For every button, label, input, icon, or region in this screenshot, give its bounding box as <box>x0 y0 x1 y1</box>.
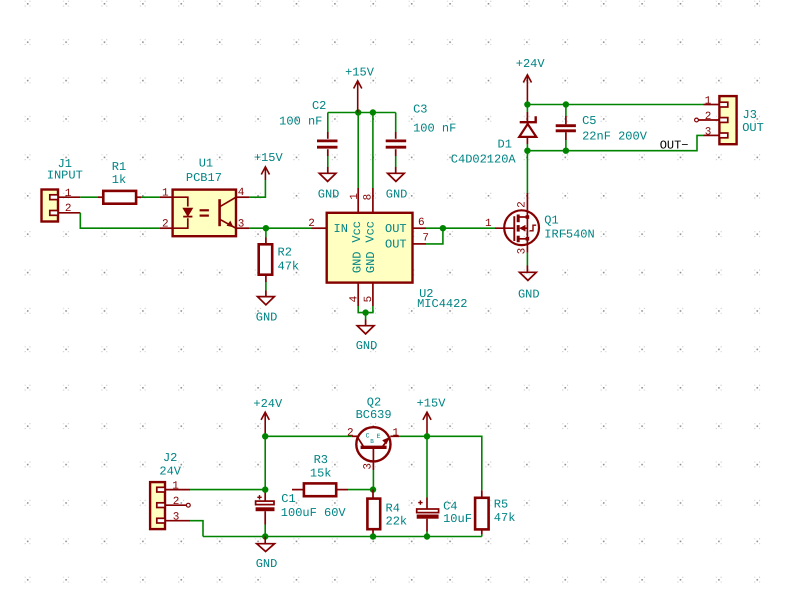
svg-text:100 nF: 100 nF <box>413 122 456 136</box>
U2 pin 6 <box>413 227 427 229</box>
ground under R2 <box>258 297 275 305</box>
svg-text:2: 2 <box>162 218 169 230</box>
connector J3 <box>719 96 736 144</box>
capacitor C1 <box>256 495 275 536</box>
wire U2 pin8 up to rail <box>372 113 374 189</box>
power symbol +15V bottom <box>423 412 431 436</box>
junction +24V node <box>524 101 530 107</box>
U2 pin 2 <box>312 227 327 229</box>
wire Q2.3 to node <box>372 470 374 490</box>
svg-text:GND: GND <box>256 311 278 325</box>
svg-text:R3: R3 <box>314 453 328 467</box>
ground under C2 <box>319 173 336 181</box>
U1 pin 4 <box>236 196 249 198</box>
connector J1 <box>42 190 59 222</box>
svg-text:1: 1 <box>349 193 361 200</box>
junction rail pin1 <box>355 109 361 115</box>
wire U2 pin1 up to rail <box>357 113 359 189</box>
svg-text:BC639: BC639 <box>356 408 392 422</box>
wire R1 to U1.1 <box>141 196 160 198</box>
svg-text:+24V: +24V <box>516 57 546 71</box>
svg-text:R5: R5 <box>494 497 508 511</box>
U2 pin 5 <box>372 283 374 306</box>
svg-text:2: 2 <box>517 201 529 208</box>
ground under C3 <box>388 173 405 181</box>
svg-text:1: 1 <box>172 481 179 493</box>
svg-text:C: C <box>366 433 370 440</box>
svg-text:U1: U1 <box>199 157 213 171</box>
junction ground rail C1 <box>262 533 268 539</box>
svg-text:OUT: OUT <box>742 121 764 135</box>
capacitor C5 <box>556 105 576 151</box>
junction +15V bottom <box>424 433 430 439</box>
resistor R5 <box>475 498 489 537</box>
junction ground rail C4 <box>424 533 430 539</box>
transistor Q2 <box>352 427 391 470</box>
junction U2 outputs <box>440 225 446 231</box>
svg-text:+24V: +24V <box>253 397 283 411</box>
svg-text:100uF 60V: 100uF 60V <box>281 506 347 520</box>
power symbol +24V bottom <box>261 412 269 436</box>
svg-text:R2: R2 <box>278 246 292 260</box>
junction drain node <box>524 148 530 154</box>
svg-text:+15V: +15V <box>254 151 284 165</box>
wire J2.3 to ground rail <box>190 521 203 537</box>
driver U2 <box>327 213 413 283</box>
resistor R1 <box>98 191 141 204</box>
svg-text:2: 2 <box>347 427 354 439</box>
wire junction to GND <box>365 313 367 320</box>
wire R2 to GND <box>265 275 267 282</box>
ground under U2 <box>357 326 374 334</box>
U1 pin 3 <box>236 227 249 229</box>
svg-text:1: 1 <box>485 218 492 230</box>
svg-text:2: 2 <box>173 496 180 508</box>
U2 pin 4 <box>357 283 359 306</box>
svg-text:2: 2 <box>308 218 315 230</box>
wire R3 to node <box>348 489 373 491</box>
wire OUT- rail <box>527 135 703 150</box>
junction node U1.3/R2 <box>263 225 269 231</box>
svg-text:Vcc: Vcc <box>350 221 364 243</box>
U1 pin 2 <box>160 227 173 229</box>
svg-text:8: 8 <box>362 194 374 201</box>
svg-text:100 nF: 100 nF <box>279 114 322 128</box>
svg-text:IN: IN <box>334 222 348 236</box>
svg-text:+15V: +15V <box>417 397 447 411</box>
junction C1 top <box>262 486 268 492</box>
capacitor C3 <box>386 113 407 174</box>
wire U1.3 to U2.2 <box>249 227 312 229</box>
junction R3 R4 Q2 <box>370 486 376 492</box>
svg-text:Vcc: Vcc <box>364 221 378 243</box>
junction ground rail R4 <box>370 533 376 539</box>
svg-text:6: 6 <box>418 217 425 229</box>
svg-text:INPUT: INPUT <box>47 168 83 182</box>
svg-text:C3: C3 <box>413 103 427 117</box>
wire J1.2 corner down <box>80 213 160 228</box>
svg-text:47k: 47k <box>278 259 300 273</box>
svg-text:7: 7 <box>422 233 429 245</box>
svg-text:22k: 22k <box>386 514 408 528</box>
U1 pin 1 <box>160 196 173 198</box>
svg-text:5: 5 <box>363 296 375 303</box>
wire outputs junction down U2 pins 4,5 <box>358 306 373 313</box>
J2 pin 2 unconnected <box>165 504 186 506</box>
svg-text:GND: GND <box>518 287 540 301</box>
svg-text:4: 4 <box>238 187 245 199</box>
resistor R3 <box>292 483 348 496</box>
svg-text:15k: 15k <box>310 466 332 480</box>
ground under C1 <box>257 537 275 552</box>
svg-text:GND: GND <box>364 251 378 273</box>
resistor R2 <box>259 244 273 274</box>
svg-text:MIC4422: MIC4422 <box>417 297 467 311</box>
svg-text:24V: 24V <box>159 464 181 478</box>
svg-text:GND: GND <box>350 251 364 273</box>
svg-text:C2: C2 <box>312 99 326 113</box>
junction rail pin8 <box>370 109 376 115</box>
J1 pin 2 <box>58 212 80 214</box>
svg-text:+15V: +15V <box>345 66 375 80</box>
svg-text:C1: C1 <box>281 492 295 506</box>
svg-text:1: 1 <box>162 187 169 199</box>
wire bottom ground rail <box>203 536 482 538</box>
wire U2 pin7 loop <box>426 228 443 244</box>
wire J2.1 to +24V node <box>190 489 265 491</box>
ground under Q1 <box>520 272 537 280</box>
svg-text:1k: 1k <box>112 173 126 187</box>
U2 pin 8 <box>372 188 374 213</box>
wire +24V rail to J3.1 <box>527 104 703 106</box>
svg-text:OUT−: OUT− <box>660 139 689 153</box>
svg-text:PCB17: PCB17 <box>186 171 222 185</box>
junction U2 ground pins <box>362 309 368 315</box>
transistor Q1 <box>495 193 539 253</box>
wire junction to Q1 gate <box>443 227 495 229</box>
Q2 internal pin names <box>366 433 381 445</box>
power symbol +15V over U2 <box>354 81 362 113</box>
svg-text:1: 1 <box>392 427 399 439</box>
wire +24V to Q2.2 <box>265 435 352 437</box>
wire +24V vertical <box>264 436 266 489</box>
J2 pin 3 <box>165 520 190 522</box>
svg-text:IRF540N: IRF540N <box>544 228 594 242</box>
wire +15V node to R5 <box>427 436 482 490</box>
svg-text:4: 4 <box>349 295 361 302</box>
power symbol +15V at U1 <box>261 167 269 180</box>
svg-text:E: E <box>377 433 381 440</box>
wire node to C1 top <box>264 490 266 502</box>
svg-text:R4: R4 <box>386 502 400 516</box>
svg-text:C4D02120A: C4D02120A <box>451 153 517 167</box>
diode D1 <box>519 105 536 151</box>
junction C5 bottom <box>563 148 569 154</box>
J3 pin 3 <box>704 134 720 136</box>
power symbol +24V top <box>523 75 531 105</box>
U2 pin 7 <box>413 243 427 245</box>
svg-text:B: B <box>370 438 374 445</box>
junction C5 top <box>563 101 569 107</box>
wire U1.4 to power <box>249 180 265 197</box>
J3 pin 1 <box>704 104 720 106</box>
optocoupler U1 <box>173 190 236 237</box>
svg-text:47k: 47k <box>494 511 516 525</box>
capacitor C4 <box>417 436 439 536</box>
svg-text:1: 1 <box>705 96 712 108</box>
wire junction to R2 <box>265 228 267 237</box>
J3 pin 2 unconnected <box>695 118 699 122</box>
capacitor C2 <box>317 113 338 174</box>
J2 pin 1 <box>165 489 190 491</box>
svg-text:GND: GND <box>356 339 378 353</box>
svg-text:J2: J2 <box>163 451 177 465</box>
svg-text:1: 1 <box>65 188 72 200</box>
svg-text:C5: C5 <box>582 114 596 128</box>
wire J1.1 to R1 <box>80 196 98 198</box>
connector J2 <box>150 482 165 529</box>
svg-text:3: 3 <box>363 463 375 470</box>
svg-text:GND: GND <box>318 187 340 201</box>
svg-text:GND: GND <box>386 187 408 201</box>
svg-text:2: 2 <box>705 111 712 123</box>
svg-text:10uF: 10uF <box>443 512 472 526</box>
svg-text:OUT: OUT <box>385 222 407 236</box>
wire U2 pin6 to junction <box>426 227 443 229</box>
svg-text:3: 3 <box>705 126 712 138</box>
U2 pin 1 <box>357 188 359 213</box>
wire Q1 drain up to node <box>526 151 528 193</box>
svg-text:3: 3 <box>173 512 180 524</box>
svg-text:J3: J3 <box>743 108 757 122</box>
svg-text:OUT: OUT <box>385 238 407 252</box>
wire +15V rail over U2 <box>328 112 396 114</box>
svg-text:22nF 200V: 22nF 200V <box>582 130 648 144</box>
svg-text:D1: D1 <box>498 138 512 152</box>
svg-text:2: 2 <box>65 203 72 215</box>
wire Q1 source to GND <box>526 253 528 266</box>
junction +24V bottom <box>262 433 268 439</box>
svg-text:GND: GND <box>256 557 278 571</box>
resistor R4 <box>367 490 380 537</box>
svg-text:Q1: Q1 <box>544 214 558 228</box>
wire Q2.1 to +15V node <box>390 435 427 437</box>
J1 pin 1 <box>58 196 80 198</box>
svg-text:3: 3 <box>238 218 245 230</box>
